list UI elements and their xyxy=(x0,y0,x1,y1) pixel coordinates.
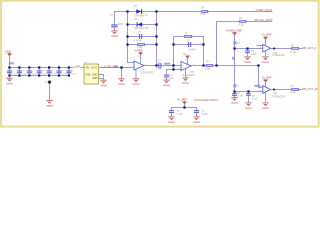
svg-text:33nF: 33nF xyxy=(118,23,124,26)
svg-text:TL082ACDR: TL082ACDR xyxy=(182,74,195,77)
svg-text:TP: TP xyxy=(45,82,48,85)
svg-text:GND: GND xyxy=(85,73,90,76)
svg-text:A_PB_SIG: A_PB_SIG xyxy=(104,65,117,69)
svg-text:1uF: 1uF xyxy=(169,77,173,80)
svg-text:Not fitted TH: Not fitted TH xyxy=(134,27,148,30)
svg-text:1.00k: 1.00k xyxy=(205,68,211,71)
svg-text:10.0k: 10.0k xyxy=(200,13,206,16)
svg-text:PB_SIG_AOUT: PB_SIG_AOUT xyxy=(255,18,274,22)
svg-text:1N4148W TH: 1N4148W TH xyxy=(134,14,148,17)
svg-text:GND: GND xyxy=(92,77,97,80)
svg-text:0.1uF: 0.1uF xyxy=(252,98,258,101)
svg-text:1.00k: 1.00k xyxy=(137,46,143,49)
svg-text:0.047uF: 0.047uF xyxy=(188,48,197,51)
svg-text:+5VA: +5VA xyxy=(5,50,12,54)
svg-text:VIN: VIN xyxy=(85,66,89,69)
svg-text:TL082ACDR: TL082ACDR xyxy=(272,54,285,57)
svg-text:V+_REF: V+_REF xyxy=(262,76,272,80)
svg-text:0.1uF: 0.1uF xyxy=(61,73,67,75)
svg-text:4.7uF: 4.7uF xyxy=(71,73,77,75)
svg-text:GND: GND xyxy=(92,73,97,76)
svg-text:0.1uF: 0.1uF xyxy=(237,94,243,97)
svg-text:V+_REF: V+_REF xyxy=(262,33,272,37)
svg-text:PB_OUT_A0: PB_OUT_A0 xyxy=(303,87,319,91)
svg-text:4.7uF: 4.7uF xyxy=(177,113,183,116)
svg-text:0.1uF: 0.1uF xyxy=(32,73,38,75)
svg-text:PLACE NEAR SUPPLY: PLACE NEAR SUPPLY xyxy=(194,99,219,102)
svg-text:VOUT: VOUT xyxy=(91,66,98,69)
svg-text:0.1uF: 0.1uF xyxy=(52,73,58,75)
svg-text:V+REF: V+REF xyxy=(134,49,143,53)
svg-text:+5VA: +5VA xyxy=(74,65,81,69)
svg-text:VTRIG_AOUT: VTRIG_AOUT xyxy=(256,8,273,12)
svg-text:4.7uF: 4.7uF xyxy=(156,68,162,71)
svg-text:10.0k: 10.0k xyxy=(238,24,244,27)
svg-text:+4.096V_REF: +4.096V_REF xyxy=(226,28,243,32)
svg-text:V+: V+ xyxy=(183,52,187,56)
svg-text:0.1uF: 0.1uF xyxy=(42,73,48,75)
svg-text:0.047uF: 0.047uF xyxy=(134,39,143,42)
svg-text:51.0R: 51.0R xyxy=(290,51,296,54)
svg-text:0.1uF: 0.1uF xyxy=(251,53,257,56)
svg-text:PB_OUT_A: PB_OUT_A xyxy=(303,46,317,50)
svg-text:0.1uF: 0.1uF xyxy=(202,113,208,116)
svg-text:V+_REF: V+_REF xyxy=(177,98,187,102)
svg-text:TL082ACDR: TL082ACDR xyxy=(272,96,285,99)
svg-text:0.1uF: 0.1uF xyxy=(12,73,18,75)
svg-text:0.1uF: 0.1uF xyxy=(22,73,28,75)
svg-text:TL082ACDR: TL082ACDR xyxy=(140,72,153,75)
svg-text:49.9R: 49.9R xyxy=(290,92,296,95)
